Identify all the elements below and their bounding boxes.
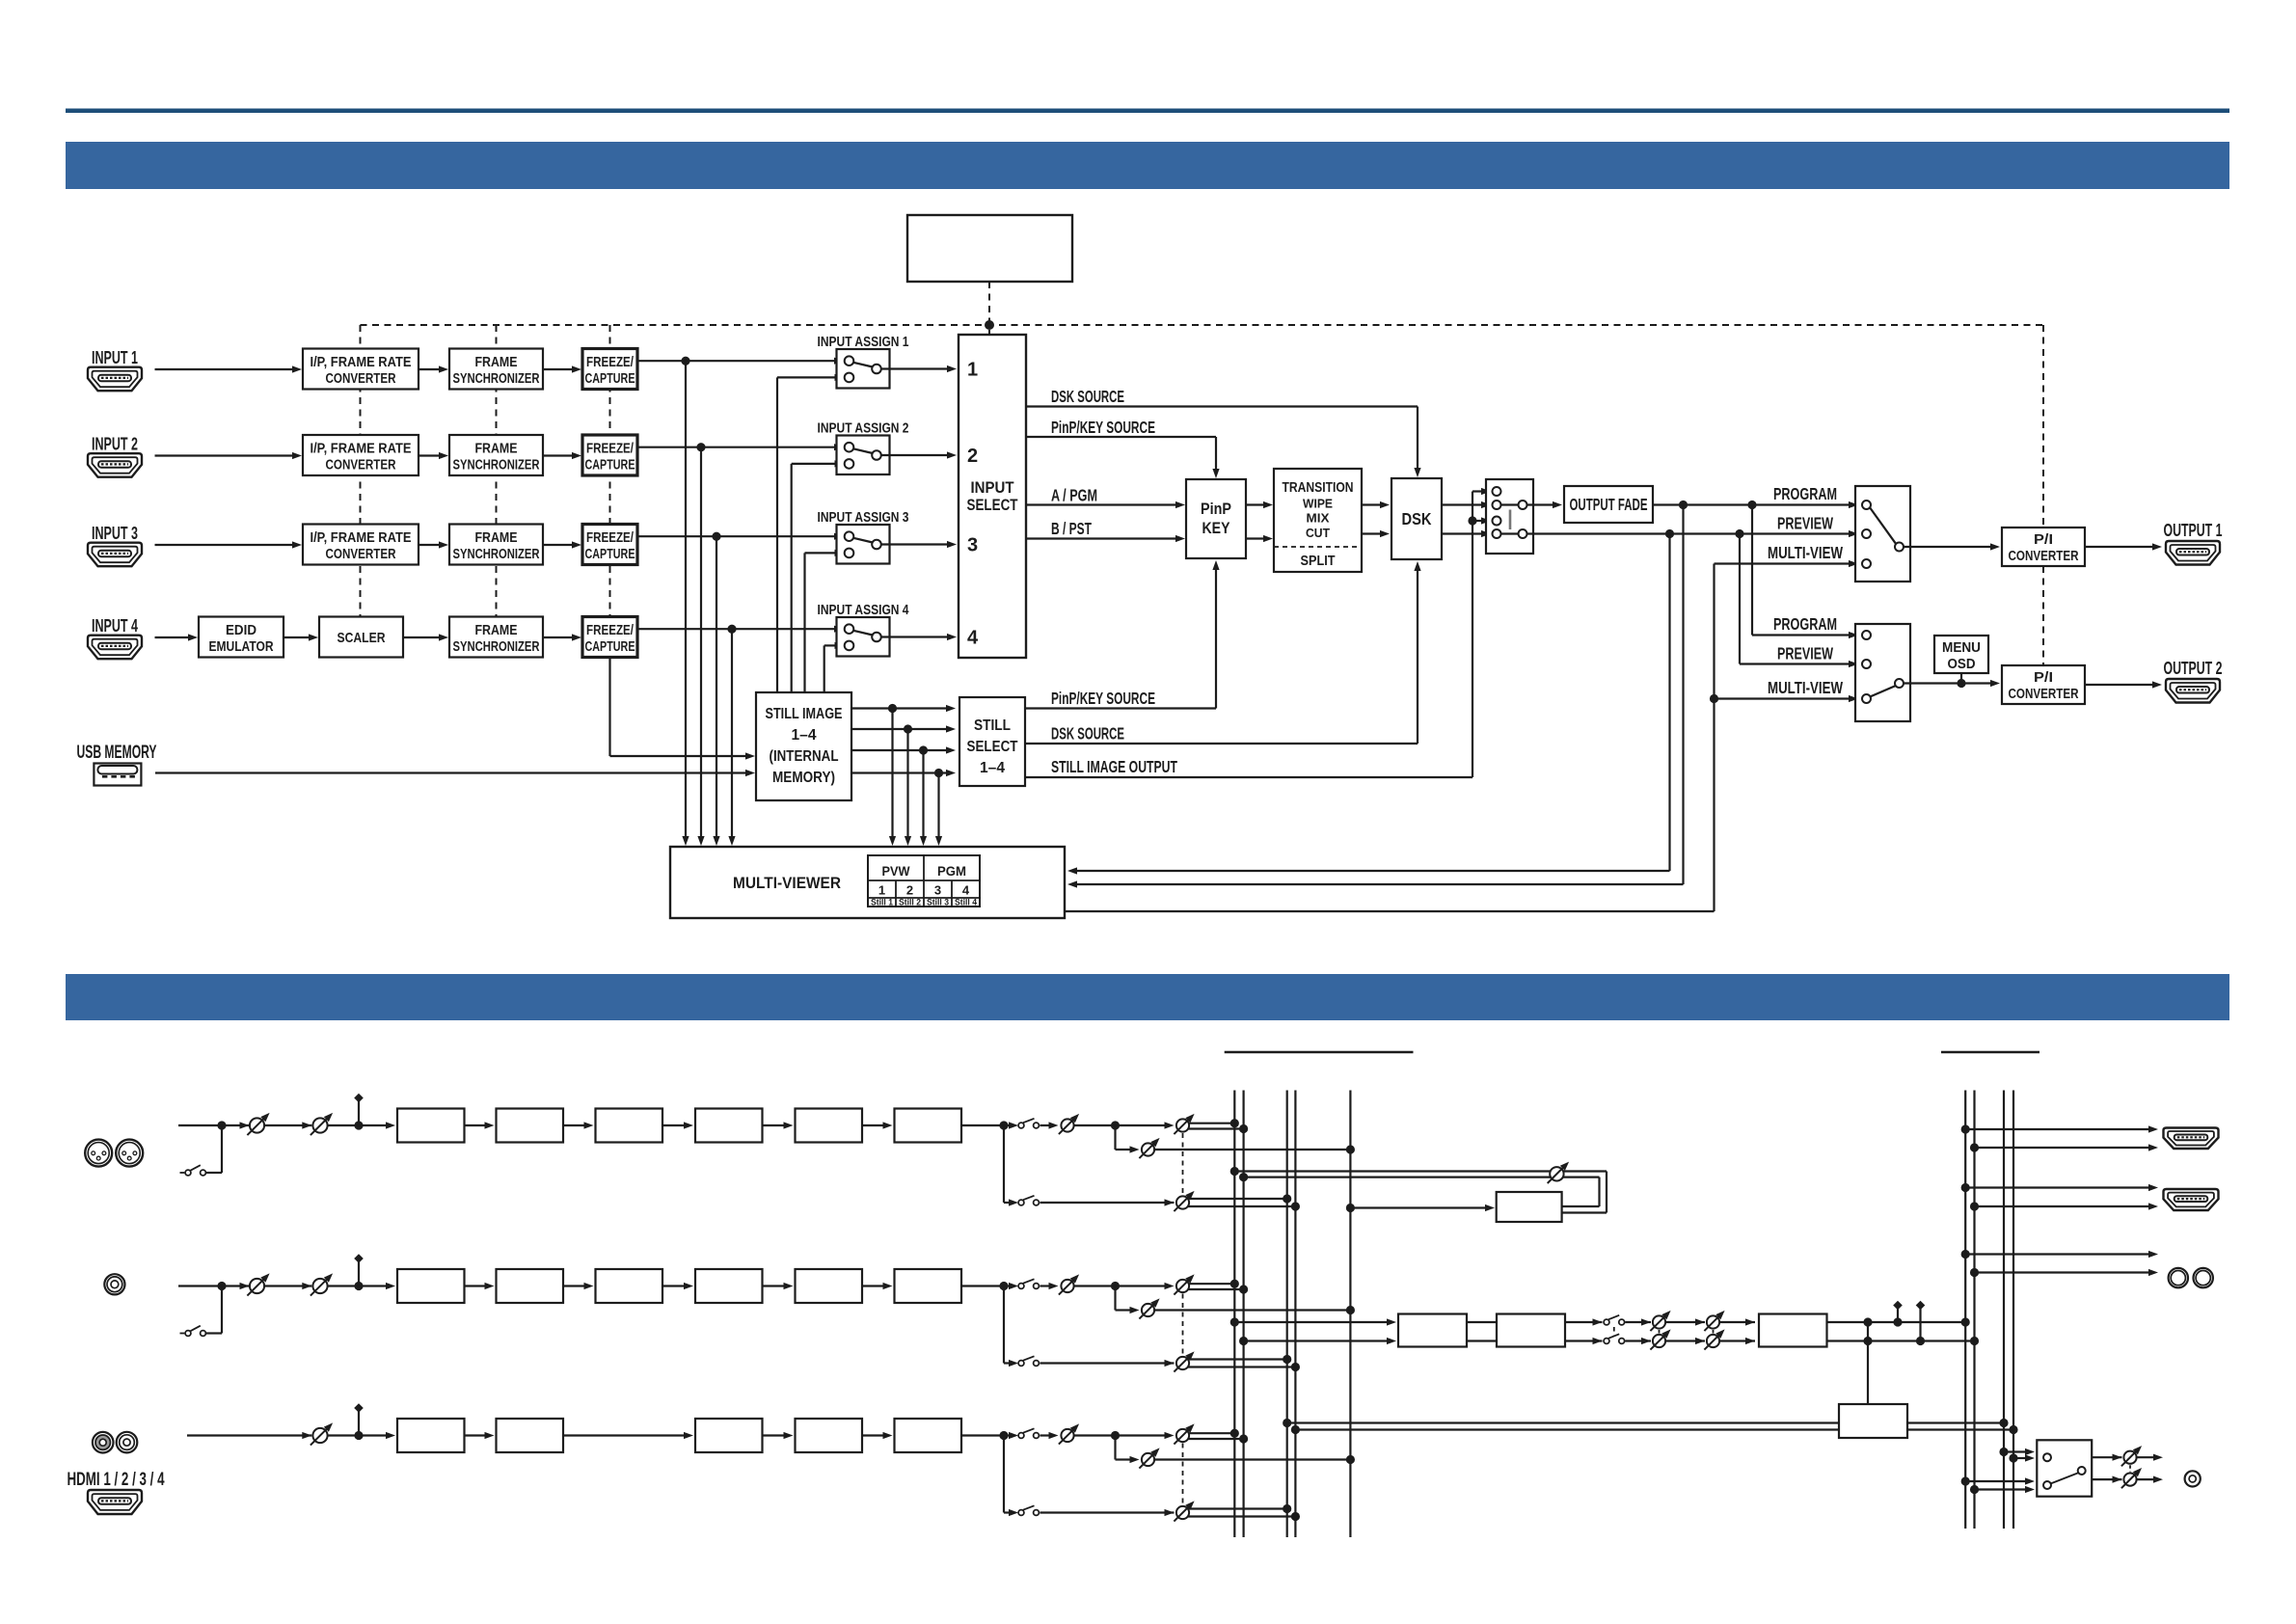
input assign 4 bottom contact [845,641,854,651]
wire box4 to box5 row 1 [763,1122,794,1128]
junction master to out bus R [1970,1337,1979,1345]
junction master diamond L [1893,1317,1902,1326]
INPUT ASSIGN 3 label [818,510,909,526]
audio row 2 tap diamond [354,1254,364,1286]
dashed drop to I/P converter column [360,325,362,617]
audio row 3 main level knob [1059,1423,1079,1444]
wire trunk 3 down to multi-viewer [713,536,719,846]
wire still image out 1 to still select [851,705,956,712]
multi-viewer input 4 label [962,883,970,898]
wire main bus L to master box1 [1234,1318,1396,1325]
svg-text:TRANSITION: TRANSITION [1283,479,1354,496]
input assign switch 1 box [837,349,890,389]
sw0 gang link [1509,510,1512,530]
dashed control bus horizontal [361,324,2044,326]
wire INPUT 1 to I/P converter [155,365,303,372]
audio row 2 send dot [1111,1282,1120,1290]
PROGRAM label 2 [1773,614,1837,634]
svg-text:INPUT ASSIGN 4: INPUT ASSIGN 4 [818,603,909,618]
wire send dot to bus knob row 3 [1116,1432,1175,1439]
MULTI-VIEW label 1 [1768,543,1843,562]
svg-text:PinP/KEY SOURCE: PinP/KEY SOURCE [1051,689,1155,708]
junction main bus L master [1230,1317,1239,1326]
INPUT 4 label [92,616,138,636]
B / PST label [1051,519,1092,538]
svg-text:1–4: 1–4 [792,727,817,744]
wire box4 to box5 row 3 [763,1432,794,1439]
control box [907,215,1072,282]
INPUT ASSIGN 4 label [818,603,909,618]
wire HDMI out 2 audio L [1965,1184,2158,1191]
input assign 3 bottom contact [845,549,854,558]
wire monitor knob to bus row 1 [1154,1149,1350,1150]
wire knob2 to box1 row 2 [328,1285,359,1286]
transition box [1274,469,1362,572]
junction monitor bus row 1 [1346,1145,1355,1153]
svg-text:DSK SOURCE: DSK SOURCE [1051,387,1124,406]
output1 selector blade [1870,508,1896,544]
junction line out R [1970,1268,1979,1277]
junction dot trunk 3 [712,532,720,541]
wire trunk 2 down to multi-viewer [697,447,704,846]
wire master out L [1827,1321,1966,1323]
PinP KEY box [1186,479,1246,558]
wire sub bus L to monitor pair [1287,1421,2004,1423]
audio row 3 knob gang link [1182,1444,1184,1505]
svg-text:OUTPUT 1: OUTPUT 1 [2164,521,2223,540]
input assign 3 top contact [845,531,854,541]
wire main bus L row 2 [1188,1283,1234,1285]
junction meter tap R [1863,1337,1872,1345]
wire switch to master knob1 L [1625,1318,1651,1325]
wire capture feed to still image [610,658,756,760]
output2 selector contact program [1862,631,1871,639]
svg-text:STILL IMAGE: STILL IMAGE [766,706,843,722]
HDMI audio connector [88,1490,142,1514]
junction phones main R [1970,1485,1979,1494]
wire to main switch row 2 [1004,1285,1013,1286]
wire output2 selector to P/I converter [1904,680,2000,687]
sw0 blade A [1501,503,1519,505]
audio processing box row 1 col 3 [596,1109,663,1143]
wire still 1 to input assign 1 [777,374,845,692]
input assign 2 bottom contact [845,459,854,469]
wire still image output to selector [1025,488,1491,777]
audio row 3 monitor drop [1116,1436,1140,1464]
input assign 4 pole contact [872,633,881,642]
svg-text:FREEZE/: FREEZE/ [586,355,634,370]
svg-text:3: 3 [934,883,941,898]
input assign 1 top contact [845,356,854,365]
OUTPUT 2 label [2164,659,2223,678]
audio row 2 main bus knob [1174,1274,1194,1294]
effect box [1497,1192,1562,1222]
audio row 1 input wire [178,1122,250,1128]
P/I converter 1 box [2002,528,2085,566]
wire box2 to box3 row 2 [563,1283,594,1289]
audio row 1 tap dot [354,1121,363,1129]
wire program branch to output2 selector [1752,505,1858,639]
A / PGM label [1051,486,1097,505]
output fade box [1564,486,1653,523]
svg-text:WIPE: WIPE [1303,497,1333,511]
INPUT 2 label [92,435,138,454]
audio processing box row 1 col 5 [796,1109,863,1143]
sw0 contact 4 [1493,529,1501,538]
dashed drop to P/I converters [2042,325,2044,685]
svg-text:P/I: P/I [2034,670,2053,686]
master level knob 2 L [1704,1311,1724,1331]
svg-text:MIX: MIX [1307,511,1330,526]
master level knob 1 R [1650,1329,1670,1349]
phones level knob R [2121,1468,2142,1488]
junction main bus R row 3 [1239,1434,1248,1443]
junction dot still out 4 [934,769,943,777]
frame synchronizer 2 [449,435,543,475]
wire box1 to box2 row 2 [465,1283,495,1289]
wire sub switch to sub knob row 1 [1040,1199,1175,1205]
wire INPUT 3 to I/P converter [155,541,303,548]
junction master diamond R [1916,1337,1925,1345]
junction sub bus R tap [1291,1425,1300,1434]
audio row 1 aux stub [180,1172,185,1174]
INPUT 2 HDMI connector [88,453,142,477]
LINE OUT RCA R connector [2194,1268,2213,1287]
audio processing box row 2 col 6 [895,1269,962,1303]
wire input assign 4 to input select [881,634,957,640]
audio row 2 level knob 1 [247,1273,269,1295]
input assign 2 pole contact [872,450,881,460]
multi-viewer still 1 label [871,898,894,908]
svg-text:STILL: STILL [974,717,1011,734]
audio row 2 level knob 2 [311,1273,333,1295]
svg-text:PinP/KEY SOURCE: PinP/KEY SOURCE [1051,418,1155,437]
AUDIO IN RCA L connector [93,1432,114,1453]
input select box [959,335,1026,658]
wire sub bus R row 2 [1188,1366,1295,1367]
wire still image out 4 to still select [851,770,956,776]
input assign 4 top contact [845,624,854,634]
wire still out 1 to multi-viewer [889,709,896,847]
sw0 contact 3 [1493,517,1501,526]
wire still out 3 to multi-viewer [920,750,927,846]
wire main bus L row 1 [1188,1123,1234,1124]
OUTPUT 1 HDMI connector [2166,541,2220,565]
wire multi-view branch to output2 selector [1715,695,1859,702]
master box 2 [1497,1314,1565,1347]
svg-text:A / PGM: A / PGM [1051,486,1097,505]
audio row 3 monitor knob [1139,1448,1159,1468]
wire preview line [1527,530,1859,537]
input assign switch 2 box [837,436,890,475]
junction main bus R master [1239,1337,1248,1345]
svg-text:FREEZE/: FREEZE/ [586,623,634,638]
audio row 2 split dot [999,1282,1008,1290]
audio processing box row 3 col 6 [895,1419,962,1452]
still select box [959,697,1025,786]
audio row 3 send dot [1111,1431,1120,1440]
audio processing box row 1 col 4 [695,1109,763,1143]
junction HDMI out 2 audio R [1970,1202,1979,1210]
output1 selector contact preview [1862,529,1871,538]
input select pin 3 [967,535,978,556]
wire frame synchronizer 3 to freeze/capture [543,541,581,548]
wire preview branch to output2 selector [1740,534,1858,668]
PROGRAM label 1 [1773,484,1837,503]
wire knob1 to knob2 row 1 [265,1122,312,1128]
wire still 4 to input assign 4 [824,642,845,692]
junction sub bus L row 3 [1283,1504,1291,1513]
wire menu OSD to output [1960,673,1962,684]
wire trunk 4 down to multi-viewer [728,629,735,846]
master switch R contact a [1604,1339,1609,1344]
P/I converter 2 box [2002,665,2085,704]
sw0 pole A [1519,501,1527,509]
wire to main switch row 3 [1004,1434,1013,1436]
svg-text:SELECT: SELECT [967,497,1018,514]
input assign 1 blade [853,363,873,367]
PGM label [937,863,966,879]
wire PinP to transition A [1246,501,1273,508]
dashed drop to frame synchronizer column [496,325,498,617]
wire master knob2 to box3 R [1719,1338,1755,1344]
input select pin 1 [967,360,978,381]
sw0 contact 2 [1493,501,1501,509]
wire phones out L [2136,1454,2164,1461]
wire into first box row 3 [359,1432,395,1439]
wire preview to multi-viewer [1067,534,1670,875]
sw0 pole B [1519,529,1527,538]
multi-viewer table column line 1 [895,880,897,907]
wire box5 to box6 row 2 [862,1283,893,1289]
phones switch contact monitor [2043,1453,2051,1461]
PREVIEW label 1 [1777,514,1833,533]
junction main bus R to effect return [1239,1173,1248,1181]
svg-text:3: 3 [967,535,978,556]
wire P/I converter 2 to OUTPUT 2 [2085,681,2162,688]
svg-text:INPUT ASSIGN 3: INPUT ASSIGN 3 [818,510,909,526]
effect return line R [1244,1177,1600,1206]
wire A/PGM to PinP key [1026,501,1185,508]
master box 3 [1759,1314,1827,1347]
wire converter 3 to frame synchronizer [419,541,448,548]
input assign 4 blade [853,631,873,636]
master switch L contact b [1619,1319,1625,1325]
junction dot trunk 2 [696,443,705,451]
wire still out 2 to multi-viewer [905,729,911,846]
svg-text:FRAME: FRAME [475,530,518,546]
wire box4 to box5 row 2 [763,1283,794,1289]
audio row 1 monitor knob [1139,1138,1159,1158]
sub bus L vertical [1286,1091,1288,1538]
output1 selector contact program [1862,501,1871,509]
svg-text:DSK: DSK [1402,509,1432,528]
audio row 2 tap dot [354,1282,363,1290]
master box 1 [1398,1314,1467,1347]
svg-text:INPUT 1: INPUT 1 [92,348,138,367]
OUTPUT 2 HDMI connector [2166,679,2220,703]
audio processing box row 2 col 2 [497,1269,564,1303]
wire input assign 1 to input select [881,365,957,372]
svg-text:PROGRAM: PROGRAM [1773,484,1837,503]
audio row 2 aux blade [190,1326,201,1332]
junction dot program 2 [1747,501,1756,509]
INPUT ASSIGN 2 label [818,421,909,437]
wire sub bus L row 1 [1188,1198,1287,1200]
audio processing box row 3 col 1 [397,1419,465,1452]
audio processing box row 2 col 4 [695,1269,763,1303]
still image box [756,692,851,800]
junction monitor bus row 3 [1346,1455,1355,1464]
effect return line L [1234,1172,1607,1213]
wire HDMI out 1 audio R [1975,1144,2159,1150]
audio row 3 sub drop [1004,1436,1013,1513]
freeze/capture 3 [582,525,637,565]
audio row 1 split dot [999,1121,1008,1129]
wire phones monitor R [2013,1454,2035,1461]
multi-viewer input 2 label [906,883,913,898]
multi-viewer table column line mid [923,855,925,907]
dashed drop to freeze/capture column [609,325,611,617]
frame synchronizer 1 [449,349,543,390]
wire freeze/capture 4 to input assign 4 [637,626,844,633]
wire switch to master knob1 R [1625,1338,1651,1344]
MENU OSD box [1934,636,1988,673]
input assign switch 4 box [837,617,890,657]
svg-text:MENU: MENU [1942,640,1981,656]
selector sw0 box [1486,479,1533,554]
multi-viewer table row line 2 [868,897,980,899]
junction main bus L row 2 [1230,1280,1239,1288]
junction sub bus R row 2 [1291,1363,1300,1371]
wire main knob to send dot row 2 [1074,1285,1116,1286]
audio row 3 main switch [1009,1428,1039,1439]
audio row 2 sub drop [1004,1286,1013,1364]
svg-text:CAPTURE: CAPTURE [585,371,635,387]
level meter box [1839,1404,1907,1438]
audio processing box row 3 col 4 [695,1419,763,1452]
AUDIO IN RCA connector [104,1274,124,1294]
wire box5 to box6 row 3 [862,1432,893,1439]
junction dot preview 2 [1735,529,1743,538]
svg-text:FRAME: FRAME [475,442,518,457]
wire USB to still image [155,770,755,776]
wire input assign 3 to input select [881,541,957,548]
audio row 2 source dot [217,1282,226,1290]
junction main bus L row 1 [1230,1119,1239,1127]
wire still image out 2 to still select [851,725,956,732]
wire main knob to send dot row 1 [1074,1124,1116,1126]
audio row 3 tap diamond [354,1403,364,1435]
audio row 1 source dot [217,1121,226,1129]
wire input select PinP/KEY source [1026,437,1220,478]
INPUT 3 HDMI connector [88,543,142,567]
wire EDID emulator to scaler [284,634,318,640]
audio row 1 tap diamond [354,1094,364,1125]
wire freeze/capture 1 to input assign 1 [637,358,844,365]
svg-text:PVW: PVW [882,863,911,879]
wire master knob2 to box3 L [1719,1318,1755,1325]
wire HDMI out 1 audio L [1965,1125,2158,1132]
svg-text:SYNCHRONIZER: SYNCHRONIZER [453,639,540,655]
wire converter 2 to frame synchronizer [419,452,448,459]
junction dot still out 3 [919,745,928,754]
multi-viewer still 2 label [899,898,921,908]
junction dot multi-view branch [1710,694,1718,703]
monitor bus vertical [1349,1091,1351,1538]
multi-viewer still 3 label [927,898,949,908]
output2 selector contact preview [1862,660,1871,668]
svg-text:CAPTURE: CAPTURE [585,458,635,474]
audio row 2 sub bus knob [1174,1351,1194,1371]
wire knob2 to box1 row 1 [328,1124,359,1126]
MULTI-VIEW label 2 [1768,678,1843,697]
junction main bus L to effect return [1230,1167,1239,1176]
multi-viewer table row line 1 [868,880,980,881]
junction sub bus L row 1 [1283,1194,1291,1203]
svg-text:MULTI-VIEWER: MULTI-VIEWER [733,874,841,892]
audio row 1 aux blade [190,1165,201,1171]
junction sub bus R row 1 [1291,1202,1300,1210]
wire send dot to bus knob row 1 [1116,1122,1175,1128]
svg-text:PinP: PinP [1201,501,1231,518]
OUTPUT 1 label [2164,521,2223,540]
junction dot program 1 [1679,501,1688,509]
wire send dot to bus knob row 2 [1116,1283,1175,1289]
wire main switch to knob row 2 [1040,1283,1059,1289]
PREVIEW label 2 [1777,644,1833,663]
phones level knob L [2121,1446,2142,1466]
audio row 2 aux contact right [201,1331,206,1337]
wire sub switch to sub knob row 3 [1040,1509,1175,1516]
svg-text:Still 3: Still 3 [927,898,949,908]
svg-text:DSK SOURCE: DSK SOURCE [1051,724,1124,744]
junction HDMI out 1 audio R [1970,1143,1979,1151]
wire phones monitor L [2004,1448,2035,1455]
junction dot still out 1 [888,704,897,713]
svg-text:FREEZE/: FREEZE/ [586,530,634,546]
wire phones main R [1975,1486,2036,1493]
svg-text:2: 2 [967,446,978,467]
STILL IMAGE OUTPUT label [1051,757,1177,776]
wire box3 to box4 row 2 [662,1283,693,1289]
svg-text:I/P, FRAME RATE: I/P, FRAME RATE [311,355,412,370]
audio row 3 input wire [187,1432,311,1439]
audio row 1 send dot [1111,1121,1120,1129]
svg-text:CONVERTER: CONVERTER [326,547,396,562]
wire meter drop [1867,1322,1869,1404]
audio row 1 monitor drop [1116,1125,1140,1153]
junction dot menu OSD [1957,679,1965,688]
wire still 2 to input assign 2 [792,460,845,692]
junction dot trunk 4 [727,625,736,634]
junction line out L [1961,1250,1970,1259]
AUDIO IN RCA R connector [117,1432,138,1453]
wire still out 4 to multi-viewer [935,773,942,847]
input assign 2 blade [853,448,873,453]
I/P frame rate converter 1 [303,349,419,390]
input assign 2 top contact [845,443,854,452]
svg-text:EMULATOR: EMULATOR [209,639,274,655]
audio row 1 knob gang link [1182,1133,1184,1195]
EDID emulator [199,617,284,658]
PHONES connector [2185,1471,2201,1486]
svg-text:CONVERTER: CONVERTER [326,458,396,474]
wire master box2 to switch R [1565,1338,1603,1344]
svg-text:CONVERTER: CONVERTER [2009,549,2079,564]
audio row 3 tap dot [354,1431,363,1440]
wire input select DSK source [1026,407,1421,478]
